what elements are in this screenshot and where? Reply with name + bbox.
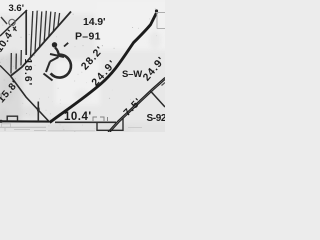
- scan mottling: [0, 16, 161, 132]
- notch box under L2: [97, 118, 123, 130]
- arm: [50, 54, 64, 57]
- svg-text:14.9': 14.9': [83, 16, 105, 28]
- diagonal A (hatch lower boundary): [11, 12, 72, 77]
- short tick right edge: [162, 83, 166, 86]
- small bracket marks above L2: [93, 117, 108, 121]
- small mark under circle: [13, 27, 17, 32]
- svg-text:3.6': 3.6': [9, 3, 24, 14]
- short segment top-left corner: [1, 17, 7, 24]
- shin: [46, 62, 50, 73]
- main diagonal D1 (28.2' line): [49, 11, 158, 123]
- small circle symbol: [9, 19, 15, 25]
- ghost bump: [2, 124, 11, 127]
- bump rectangle on L1: [7, 116, 17, 121]
- faint rectangle top-right: [156, 13, 166, 29]
- foot bar: [44, 74, 53, 81]
- vertical tick on L1: [37, 102, 39, 122]
- svg-text:S–W: S–W: [122, 69, 142, 80]
- node V2 short line to left edge: [0, 66, 11, 77]
- thigh: [50, 57, 59, 62]
- svg-text:P–91: P–91: [75, 31, 101, 43]
- push handle: [64, 43, 68, 47]
- D1 tip blob: [155, 9, 158, 12]
- svg-text:10.4': 10.4': [64, 111, 92, 123]
- wheelchair symbol: [44, 42, 71, 80]
- hatch area left edge: [25, 10, 27, 55]
- diagonal D4 branch: [150, 91, 165, 108]
- boundary line B (top-left diagonal): [0, 10, 27, 36]
- scan speckle: [0, 8, 157, 132]
- diagonal D2 (7.5' line): [108, 78, 166, 134]
- hatch lines: [11, 11, 60, 74]
- wall L2: [55, 121, 116, 123]
- bottom wall L1: [0, 120, 49, 122]
- ghost line bottom-left: [0, 126, 46, 128]
- left edge smudge: [0, 94, 3, 101]
- diamond lower-left edge (15.8' line): [11, 76, 50, 122]
- wheel: [51, 55, 71, 78]
- svg-text:18.6': 18.6': [22, 59, 33, 87]
- torso: [55, 48, 59, 57]
- head: [52, 42, 57, 47]
- svg-text:S-92: S-92: [147, 113, 166, 124]
